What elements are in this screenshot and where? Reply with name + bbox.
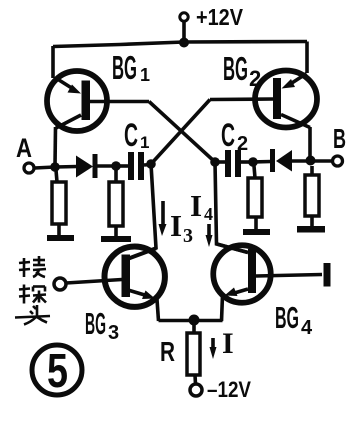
svg-text:I: I (222, 327, 234, 360)
ground R4 (297, 226, 325, 233)
resistor R1 (52, 170, 66, 236)
wire BG4 emitter down (222, 295, 223, 321)
wire junction to B terminal (310, 159, 332, 163)
label BG3 (85, 306, 119, 344)
wire junction to diode D1 (55, 165, 77, 169)
svg-text:+12V: +12V (196, 4, 244, 30)
node A terminal (16, 133, 34, 173)
svg-text:–12V: –12V (207, 377, 251, 402)
junction node C1-right (146, 159, 156, 169)
svg-text:BG: BG (223, 50, 248, 87)
ground R2 (101, 236, 131, 242)
label 探 (probe) (19, 285, 46, 304)
wire C2 to junction (241, 160, 253, 164)
arrow I current (210, 338, 217, 359)
wire rail to BG1 emitter (51, 46, 55, 78)
probe contact bar (BG4) (324, 263, 331, 287)
svg-text:2: 2 (249, 66, 261, 91)
diode D2 (270, 149, 292, 172)
svg-text:3: 3 (183, 225, 193, 247)
resistor R3 (248, 166, 262, 230)
wire top rail (53, 42, 307, 47)
svg-text:BG: BG (275, 300, 299, 335)
-12V supply terminal (190, 377, 251, 402)
junction dot common emitters (189, 315, 200, 326)
junction dot before C1 (111, 161, 121, 171)
wire junction to C1 (116, 164, 128, 168)
junction dot on rail (179, 38, 189, 48)
svg-text:A: A (16, 133, 32, 163)
label 头 (head) (15, 305, 50, 325)
diode D1 (76, 154, 98, 178)
probe terminal (BG3 base) (54, 278, 66, 290)
ground R1 (47, 235, 74, 241)
ground R3 (243, 229, 270, 235)
label BG2 (223, 50, 261, 91)
wire node to C2 (215, 160, 225, 164)
wire D1 to junction (98, 164, 117, 168)
svg-text:4: 4 (301, 317, 313, 339)
svg-text:3: 3 (108, 322, 119, 344)
wire common emitter line (159, 319, 223, 323)
wire I3 node to BG3 collector (128, 164, 156, 259)
wire BG2 base to node C1-right (cross wire) (151, 100, 210, 165)
capacitor C1 (128, 152, 144, 180)
wire junction to diode D2 (253, 160, 271, 164)
resistor R (187, 333, 200, 384)
wire BG2 collector down to B line (308, 127, 312, 161)
resistor R2 (109, 170, 123, 237)
+12V supply terminal (180, 4, 244, 30)
junction dot after C2 (248, 157, 258, 167)
junction dot A line (50, 162, 60, 172)
svg-text:BG: BG (85, 306, 106, 341)
svg-text:I: I (170, 208, 182, 243)
svg-text:C: C (124, 117, 138, 153)
svg-text:5: 5 (47, 345, 68, 398)
wire D2 to junction (292, 159, 310, 163)
capacitor C2 (225, 150, 241, 177)
transistor BG2 (210, 71, 317, 128)
node B terminal (333, 123, 347, 166)
transistor BG3 (66, 247, 165, 307)
svg-text:1: 1 (140, 65, 150, 85)
wire BG3 emitter down (157, 300, 159, 322)
transistor BG4 (213, 244, 322, 303)
wire junction to R (192, 320, 196, 334)
transistor BG1 (47, 71, 149, 131)
resistor R4 (305, 166, 319, 227)
label C1 (124, 117, 149, 153)
junction node C2-left (210, 157, 220, 167)
svg-text:2: 2 (237, 133, 248, 155)
svg-text:R: R (160, 336, 175, 367)
label BG1 (112, 49, 150, 86)
arrow I4 current (206, 224, 213, 247)
wire rail to BG2 emitter (305, 42, 309, 74)
svg-text:1: 1 (140, 133, 149, 152)
wire C1 to junction (144, 163, 151, 167)
label 接 (connect) (19, 256, 46, 277)
arrow I3 current (159, 201, 167, 236)
label BG4 (275, 300, 313, 339)
junction dot B line (306, 156, 316, 166)
label I3 (170, 208, 193, 247)
svg-text:I: I (190, 188, 202, 223)
svg-text:BG: BG (112, 49, 137, 86)
label C2 (221, 117, 248, 155)
wire +12V to rail (182, 22, 186, 44)
figure number 5 (32, 345, 82, 398)
label I4 (190, 188, 213, 224)
svg-text:B: B (333, 123, 346, 154)
svg-text:4: 4 (204, 204, 213, 224)
wire BG1 collector down to A line (53, 127, 57, 166)
wire I4 node to BG4 collector (215, 162, 248, 253)
wire A to junction (35, 167, 56, 168)
wire BG1 base to node C2-left (cross wire) (149, 102, 215, 163)
svg-text:C: C (221, 117, 235, 153)
